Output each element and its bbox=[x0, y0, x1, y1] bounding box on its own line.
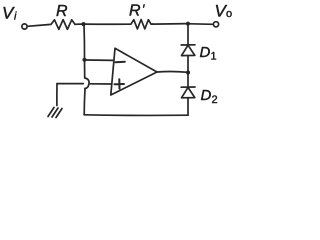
svg-text:D: D bbox=[201, 87, 212, 104]
wire node B to Vo bbox=[190, 23, 214, 26]
diode D1 bbox=[181, 45, 195, 56]
wire node D down to hop bbox=[84, 61, 86, 79]
svg-text:′: ′ bbox=[142, 2, 145, 17]
op-amp minus sign bbox=[116, 61, 125, 63]
wire node C down to D2 cathode bbox=[187, 74, 189, 87]
wire node A to R' bbox=[84, 23, 129, 25]
node D junction dot bbox=[82, 58, 86, 62]
resistor R bbox=[48, 20, 78, 30]
wire D1 anode to node C bbox=[187, 56, 189, 71]
node C junction dot bbox=[186, 70, 190, 74]
op-amp U1 bbox=[111, 48, 157, 95]
svg-text:2: 2 bbox=[212, 94, 218, 106]
wire inverting input bbox=[86, 59, 114, 61]
label Vi bbox=[2, 4, 17, 23]
wire hop to bottom rail bbox=[83, 89, 86, 115]
wire Vi to R bbox=[27, 25, 48, 27]
diode D2 bbox=[181, 87, 195, 98]
svg-text:i: i bbox=[14, 11, 17, 23]
terminal Vi bbox=[22, 24, 27, 29]
wire hop over ground wire bbox=[85, 78, 89, 89]
wire op-amp output bbox=[157, 70, 188, 73]
terminal Vo bbox=[213, 22, 218, 27]
svg-text:1: 1 bbox=[211, 51, 217, 63]
wire non-inverting input bbox=[57, 83, 112, 85]
wire node B down to D1 cathode bbox=[187, 25, 189, 45]
wire D2 anode to bottom rail bbox=[187, 98, 189, 115]
label R' bbox=[129, 2, 145, 20]
wire node A down to node D bbox=[83, 25, 86, 59]
node A junction dot bbox=[81, 22, 85, 26]
svg-text:D: D bbox=[200, 44, 211, 61]
label D2 bbox=[201, 87, 218, 106]
wire R to node A bbox=[78, 23, 84, 25]
node B junction dot bbox=[186, 22, 190, 26]
ground bbox=[48, 108, 62, 118]
bottom rail wire bbox=[84, 114, 188, 117]
wire ground branch vertical bbox=[56, 84, 58, 106]
label Vo bbox=[215, 2, 233, 21]
resistor R' bbox=[129, 20, 153, 29]
label R bbox=[56, 3, 68, 20]
svg-text:R: R bbox=[56, 3, 68, 20]
wire R' to node B bbox=[153, 23, 188, 26]
label D1 bbox=[200, 44, 217, 63]
svg-text:o: o bbox=[226, 8, 232, 20]
op-amp plus sign bbox=[115, 79, 125, 88]
svg-text:R: R bbox=[129, 3, 141, 20]
